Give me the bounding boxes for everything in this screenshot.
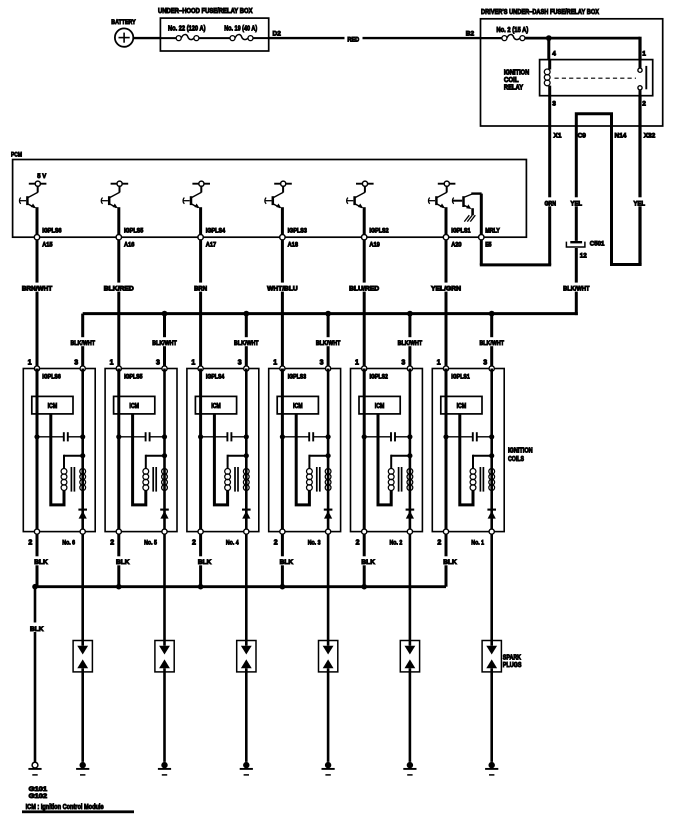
- svg-text:4: 4: [552, 50, 556, 57]
- coil No. 1 output pin No. 1: [471, 529, 494, 547]
- svg-text:No. 3: No. 3: [308, 540, 321, 547]
- svg-text:No. 6: No. 6: [62, 540, 75, 547]
- ICM box in coil No. 5: [114, 396, 155, 414]
- svg-text:BRN: BRN: [194, 285, 207, 292]
- svg-text:BATTERY: BATTERY: [111, 19, 136, 26]
- ICM box in coil No. 4: [195, 396, 236, 414]
- wire IGPLS3 emitter to pin A18: [281, 207, 284, 237]
- coil No. 2 pin 2: [356, 529, 367, 547]
- svg-text:BLK/WHT: BLK/WHT: [152, 340, 177, 347]
- ICM box in coil No. 1: [441, 396, 482, 414]
- transformer core coil No. 1: [480, 467, 483, 492]
- transistor driver Q3 (IGPLS4): [183, 181, 210, 208]
- wire coil No. 5 output to spark plug 5: [163, 534, 166, 646]
- coil No. 5 output pin No. 5: [144, 529, 167, 547]
- ignition coil unit No. 3 (IGPLS3) box: [269, 369, 341, 532]
- svg-text:YEL/GRN: YEL/GRN: [431, 285, 461, 292]
- wire WHT/BLU pin A18 to coil No.3 pin 1: [266, 240, 299, 369]
- coil No. 5 pin3 internal wire: [163, 369, 166, 532]
- wire MRLY collector to pin E5: [480, 194, 483, 238]
- spark plug 5: [155, 641, 174, 672]
- under-hood fuse/relay box: [158, 8, 269, 51]
- transformer secondary winding coil No. 5: [162, 469, 168, 491]
- transformer primary winding coil No. 3: [307, 469, 313, 491]
- battery B1: [111, 19, 136, 47]
- svg-text:BLK: BLK: [30, 626, 44, 633]
- ground spark plug 5: [158, 762, 171, 775]
- coil No. 4 pin1 internal wire: [199, 369, 202, 532]
- svg-text:IGPLS2: IGPLS2: [370, 374, 389, 381]
- svg-text:YEL: YEL: [571, 200, 583, 207]
- ICM box in coil No. 6: [32, 396, 73, 414]
- pin A20 (IGPLS1): [443, 228, 471, 249]
- spark plug 2: [400, 641, 419, 672]
- wire coil No. 4 output to spark plug 4: [245, 534, 248, 646]
- svg-text:IGPLS4: IGPLS4: [206, 228, 226, 235]
- transistor driver Q5 (IGPLS2): [347, 181, 374, 208]
- wire spark plug 2 to ground: [409, 668, 412, 762]
- coil No. 3 pin 3: [320, 360, 331, 371]
- wire BLK coil No. 2 pin 2 to ground bus: [361, 534, 377, 587]
- svg-text:COILS: COILS: [508, 456, 524, 463]
- diode in coil No. 3: [324, 510, 333, 519]
- pin A15 (IGPLS6): [34, 228, 62, 249]
- transformer primary winding coil No. 4: [225, 469, 231, 491]
- svg-text:YEL: YEL: [633, 200, 645, 207]
- svg-text:MRLY: MRLY: [485, 228, 500, 235]
- svg-text:E5: E5: [485, 242, 492, 249]
- svg-text:X1: X1: [554, 132, 562, 139]
- relay pin 1: [642, 50, 646, 57]
- relay dashed link: [555, 77, 637, 79]
- svg-text:SPARK: SPARK: [503, 654, 521, 661]
- svg-text:PCM: PCM: [11, 152, 22, 159]
- primary winding top tap coil No. 2: [391, 453, 412, 469]
- wire YEL/GRN pin A20 to coil No.1 pin 1: [430, 240, 462, 369]
- transistor driver Q4 (IGPLS3): [265, 181, 292, 208]
- pin A17 (IGPLS4): [198, 228, 226, 249]
- wire BLK coil No. 3 pin 2 to ground bus: [279, 534, 295, 587]
- wire coil No. 1 output to spark plug 1: [490, 534, 493, 646]
- svg-text:ICM : Ignition Control Module: ICM : Ignition Control Module: [26, 804, 104, 811]
- ground spark plug 1: [485, 762, 498, 775]
- wire coil No. 3 output to spark plug 3: [327, 534, 330, 646]
- diode in coil No. 5: [160, 510, 169, 519]
- svg-text:1: 1: [437, 360, 441, 367]
- diode in coil No. 6: [78, 510, 87, 519]
- corner BLK/WHT bus left end: [69, 314, 96, 369]
- wire RED from D2 to B2: [269, 34, 481, 44]
- coil No. 2 pin1 internal wire: [363, 369, 366, 532]
- transistor driver Q1 (IGPLS6): [19, 173, 46, 208]
- wire BLK coil No. 5 pin 2 to ground bus: [115, 534, 131, 587]
- wire BLK/WHT from C501 to coil bus: [563, 248, 591, 315]
- svg-text:A19: A19: [369, 242, 380, 249]
- ground spark plug 3: [322, 762, 335, 775]
- ground spark plug 6: [76, 762, 89, 775]
- svg-text:ICM: ICM: [48, 403, 58, 410]
- svg-text:2: 2: [28, 540, 32, 547]
- wire BRN pin A17 to coil No.4 pin 1: [193, 240, 208, 369]
- transistor driver Q6 (IGPLS1): [428, 181, 455, 208]
- svg-text:COIL: COIL: [504, 77, 519, 84]
- svg-text:IGPLS1: IGPLS1: [451, 228, 471, 235]
- diode in coil No. 1: [487, 510, 496, 519]
- junction BLK/WHT bus column 5: [397, 311, 424, 369]
- svg-text:3: 3: [552, 101, 556, 108]
- svg-text:3: 3: [320, 360, 324, 367]
- svg-text:2: 2: [274, 540, 278, 547]
- svg-text:1: 1: [110, 360, 114, 367]
- terminal B2: [466, 30, 475, 37]
- diode in coil No. 2: [406, 510, 415, 519]
- svg-text:ICM: ICM: [457, 403, 467, 410]
- svg-text:N14: N14: [615, 132, 627, 139]
- svg-text:1: 1: [642, 50, 646, 57]
- diode in coil No. 4: [242, 510, 251, 519]
- wire fuse to relay pin 1: [525, 37, 640, 60]
- pin A16 (IGPLS5): [116, 228, 144, 249]
- PCM box: [11, 152, 526, 238]
- primary winding top tap coil No. 1: [473, 453, 494, 469]
- ICM box in coil No. 2: [359, 396, 400, 414]
- transistor driver Q7 (MRLY): [452, 194, 481, 222]
- coil No. 2 pin 3: [401, 360, 412, 371]
- junction BLK/WHT bus column 4: [315, 311, 342, 369]
- wire IGPLS2 emitter to pin A19: [363, 207, 366, 237]
- svg-text:A16: A16: [124, 242, 135, 249]
- coil No. 6 pin3 internal wire: [81, 369, 84, 532]
- ignition coil unit No. 4 (IGPLS4) box: [187, 369, 259, 532]
- svg-text:No. 22 (120 A): No. 22 (120 A): [168, 26, 206, 33]
- svg-text:A20: A20: [451, 242, 462, 249]
- transformer core coil No. 5: [153, 467, 156, 492]
- ignition coil unit No. 2 (IGPLS2) box: [351, 369, 423, 532]
- svg-text:1: 1: [355, 360, 359, 367]
- svg-text:UNDER–HOOD FUSE/RELAY BOX: UNDER–HOOD FUSE/RELAY BOX: [158, 8, 253, 15]
- ICM to primary wire coil No. 3: [296, 414, 309, 505]
- svg-text:3: 3: [238, 360, 242, 367]
- transformer core coil No. 4: [235, 467, 238, 492]
- svg-text:No. 1: No. 1: [471, 540, 484, 547]
- svg-text:BRN/WHT: BRN/WHT: [22, 285, 52, 292]
- coil No. 1 pin3 internal wire: [490, 369, 493, 532]
- coil No. 1 pin 3: [483, 360, 494, 371]
- svg-text:RED: RED: [347, 36, 359, 43]
- svg-text:IGPLS5: IGPLS5: [124, 374, 143, 381]
- svg-text:C501: C501: [590, 241, 605, 248]
- ICM to primary wire coil No. 1: [460, 414, 473, 505]
- relay coil winding: [544, 60, 550, 96]
- svg-text:C9: C9: [578, 132, 587, 139]
- capacitor in coil No. 4: [198, 432, 249, 441]
- wire BLK/RED pin A16 to coil No.5 pin 1: [103, 240, 135, 369]
- coil No. 3 pin 1: [273, 360, 285, 371]
- wire N14 to X32 bottom link: [610, 263, 642, 266]
- wire spark plug 6 to ground: [81, 668, 84, 762]
- primary winding top tap coil No. 6: [64, 453, 85, 469]
- coil No. 1 pin1 internal wire: [445, 369, 448, 532]
- coil No. 4 output pin No. 4: [226, 529, 249, 547]
- svg-text:WHT/BLU: WHT/BLU: [267, 285, 298, 292]
- coil No. 3 output pin No. 3: [308, 529, 331, 547]
- wire BRN/WHT pin A15 to coil No.6 pin 1: [21, 240, 53, 369]
- coil No. 5 pin 2: [110, 529, 121, 547]
- ground G101 G102: [28, 762, 47, 800]
- capacitor in coil No. 6: [34, 432, 85, 441]
- transformer primary winding coil No. 6: [61, 469, 67, 491]
- ground spark plug 2: [403, 762, 416, 775]
- svg-text:2: 2: [642, 101, 646, 108]
- junction BLK/WHT bus column 6: [478, 311, 505, 369]
- wire IGPLS4 emitter to pin A17: [199, 207, 202, 237]
- jumper C9-N14 inside box: [576, 114, 611, 126]
- coil No. 1 pin 1: [437, 360, 449, 371]
- wire IGPLS6 emitter to pin A15: [36, 207, 39, 237]
- coil No. 5 pin 3: [156, 360, 167, 371]
- fuse No.19 (40 A): [224, 26, 269, 41]
- relay pin 3: [552, 101, 556, 108]
- wire spark plug 1 to ground: [490, 668, 493, 762]
- wire GRN relay pin3/X1 to PCM E5: [480, 96, 557, 265]
- coil No. 3 pin1 internal wire: [281, 369, 284, 532]
- ignition coil unit No. 6 (IGPLS6) box: [23, 369, 95, 532]
- transistor driver Q2 (IGPLS5): [101, 181, 128, 208]
- terminal X1: [554, 132, 562, 139]
- svg-text:IGPLS3: IGPLS3: [288, 228, 308, 235]
- svg-text:BLK: BLK: [116, 559, 130, 566]
- pin E5 (MRLY): [479, 228, 501, 249]
- svg-text:X32: X32: [644, 132, 656, 139]
- ground bus: [32, 584, 446, 590]
- transformer secondary winding coil No. 6: [80, 469, 86, 491]
- svg-text:ICM: ICM: [211, 403, 221, 410]
- svg-text:BLK/WHT: BLK/WHT: [563, 285, 589, 292]
- junction BLK/WHT bus column 3: [233, 311, 260, 369]
- svg-text:BLK/WHT: BLK/WHT: [316, 340, 341, 347]
- svg-text:B2: B2: [466, 30, 475, 37]
- svg-text:12: 12: [580, 252, 587, 259]
- pin A19 (IGPLS2): [362, 228, 390, 249]
- transformer core coil No. 2: [399, 467, 402, 492]
- terminal D2: [273, 30, 282, 37]
- transformer core coil No. 6: [71, 467, 74, 492]
- coil No. 3 pin3 internal wire: [327, 369, 330, 532]
- svg-text:BLK/RED: BLK/RED: [104, 285, 134, 292]
- svg-text:A18: A18: [288, 242, 299, 249]
- junction BLK/WHT bus column 2: [151, 311, 178, 369]
- relay pin 2: [642, 101, 646, 108]
- svg-text:2: 2: [437, 540, 441, 547]
- wire IGPLS1 emitter to pin A20: [445, 207, 448, 237]
- svg-text:5 V: 5 V: [37, 173, 47, 180]
- wire battery to under-hood box: [133, 37, 160, 39]
- svg-text:BLK/WHT: BLK/WHT: [398, 340, 423, 347]
- svg-text:RELAY: RELAY: [504, 85, 523, 92]
- svg-text:1: 1: [28, 360, 32, 367]
- svg-text:IGPLS6: IGPLS6: [42, 228, 62, 235]
- svg-text:G101: G101: [29, 786, 48, 793]
- svg-text:ICM: ICM: [375, 403, 385, 410]
- coil No. 3 pin 2: [274, 529, 285, 547]
- transformer secondary winding coil No. 3: [325, 469, 331, 491]
- coil No. 2 pin 1: [355, 360, 367, 371]
- svg-text:BLK: BLK: [198, 559, 212, 566]
- label ignition coils: [508, 448, 533, 463]
- svg-text:No. 4: No. 4: [226, 540, 239, 547]
- svg-text:No. 2: No. 2: [390, 540, 403, 547]
- svg-text:IGPLS1: IGPLS1: [451, 374, 470, 381]
- svg-text:BLK: BLK: [34, 559, 48, 566]
- capacitor in coil No. 1: [443, 432, 494, 441]
- wire spark plug 4 to ground: [245, 668, 248, 762]
- svg-text:GRN: GRN: [544, 200, 556, 207]
- relay pin 4: [552, 50, 556, 57]
- coil No. 6 pin 3: [74, 360, 85, 371]
- coil No. 4 pin 2: [192, 529, 203, 547]
- svg-text:IGPLS3: IGPLS3: [288, 374, 307, 381]
- svg-text:IGPLS2: IGPLS2: [369, 228, 389, 235]
- driver's under-dash fuse/relay box: [481, 9, 663, 126]
- wire spark plug 3 to ground: [327, 668, 330, 762]
- ICM to primary wire coil No. 2: [378, 414, 391, 505]
- spark plug 4: [237, 641, 256, 672]
- svg-text:IGNITION: IGNITION: [508, 448, 533, 455]
- spark plug 3: [319, 641, 338, 672]
- primary winding top tap coil No. 3: [309, 453, 330, 469]
- svg-text:BLK/WHT: BLK/WHT: [479, 340, 504, 347]
- svg-text:2: 2: [192, 540, 196, 547]
- svg-text:IGPLS6: IGPLS6: [42, 374, 61, 381]
- svg-text:1: 1: [191, 360, 195, 367]
- coil No. 4 pin3 internal wire: [245, 369, 248, 532]
- svg-text:IGPLS5: IGPLS5: [124, 228, 144, 235]
- svg-text:A17: A17: [206, 242, 217, 249]
- label spark plugs: [503, 654, 522, 669]
- transformer secondary winding coil No. 4: [243, 469, 249, 491]
- wire YEL relay pin2/X32 down: [633, 96, 647, 265]
- svg-text:3: 3: [483, 360, 487, 367]
- svg-text:PLUGS: PLUGS: [503, 662, 522, 669]
- transformer primary winding coil No. 2: [388, 469, 394, 491]
- ground spark plug 4: [240, 762, 253, 775]
- coil No. 6 pin1 internal wire: [36, 369, 39, 532]
- svg-text:BLK: BLK: [361, 559, 375, 566]
- terminal C9: [578, 132, 587, 139]
- wire coil No. 6 output to spark plug 6: [81, 534, 84, 646]
- capacitor in coil No. 5: [116, 432, 167, 441]
- wire BLK coil No. 1 pin 2 to ground bus: [443, 534, 459, 587]
- spark plug 1: [482, 641, 501, 672]
- ICM to primary wire coil No. 6: [51, 414, 64, 505]
- note ICM legend: [22, 804, 134, 813]
- svg-text:3: 3: [156, 360, 160, 367]
- wire BLU/RED pin A19 to coil No.2 pin 1: [348, 240, 380, 369]
- svg-text:1: 1: [273, 360, 277, 367]
- fuse No.2 (15 A): [481, 27, 529, 41]
- coil No. 5 pin 1: [110, 360, 122, 371]
- primary winding top tap coil No. 5: [146, 453, 167, 469]
- svg-text:A15: A15: [42, 242, 53, 249]
- svg-text:No. 2 (15 A): No. 2 (15 A): [496, 27, 528, 34]
- wire BLK ground bus to G101/G102: [28, 587, 49, 763]
- wire BLK coil No. 6 pin 2 to ground bus: [34, 534, 50, 587]
- svg-text:3: 3: [401, 360, 405, 367]
- coil No. 6 output pin No. 6: [62, 529, 85, 547]
- junction at relay pin 4 feed: [546, 35, 552, 59]
- coil No. 6 pin 1: [28, 360, 40, 371]
- svg-text:2: 2: [110, 540, 114, 547]
- svg-text:BLU/RED: BLU/RED: [349, 285, 379, 292]
- wire IGPLS5 emitter to pin A16: [117, 207, 120, 237]
- terminal N14: [615, 132, 627, 139]
- svg-text:DRIVER'S UNDER–DASH FUSE/RELAY: DRIVER'S UNDER–DASH FUSE/RELAY BOX: [481, 9, 599, 16]
- capacitor in coil No. 3: [280, 432, 331, 441]
- coil No. 2 output pin No. 2: [390, 529, 413, 547]
- primary winding top tap coil No. 4: [228, 453, 249, 469]
- svg-text:BLK: BLK: [443, 559, 457, 566]
- svg-text:IGNITION: IGNITION: [504, 69, 529, 76]
- svg-text:No. 19 (40 A): No. 19 (40 A): [224, 26, 257, 33]
- coil No. 6 pin 2: [28, 529, 39, 547]
- svg-text:ICM: ICM: [129, 403, 139, 410]
- svg-text:BLK/WHT: BLK/WHT: [234, 340, 259, 347]
- transformer primary winding coil No. 5: [143, 469, 149, 491]
- spark plug 6: [73, 641, 92, 672]
- terminal X32: [644, 132, 656, 139]
- coil No. 4 pin 3: [238, 360, 249, 371]
- coil No. 1 pin 2: [437, 529, 448, 547]
- wire N14 jumper leg: [610, 126, 613, 265]
- coil No. 4 pin 1: [191, 360, 203, 371]
- svg-text:BLK/WHT: BLK/WHT: [70, 340, 95, 347]
- svg-text:No. 5: No. 5: [144, 540, 157, 547]
- svg-text:IGPLS4: IGPLS4: [206, 374, 225, 381]
- coil No. 2 pin3 internal wire: [409, 369, 412, 532]
- transformer primary winding coil No. 1: [470, 469, 476, 491]
- transformer secondary winding coil No. 1: [489, 469, 495, 491]
- wire coil No. 2 output to spark plug 2: [409, 534, 412, 646]
- wire BLK coil No. 4 pin 2 to ground bus: [197, 534, 213, 587]
- coil No. 5 pin1 internal wire: [117, 369, 120, 532]
- svg-text:3: 3: [74, 360, 78, 367]
- BLK/WHT bus to ignition coils: [83, 312, 578, 315]
- transformer core coil No. 3: [317, 467, 320, 492]
- relay contact: [638, 60, 646, 96]
- ignition coil unit No. 1 (IGPLS1) box: [432, 369, 504, 532]
- connector C501 pin 12: [566, 241, 605, 260]
- ICM box in coil No. 3: [277, 396, 318, 414]
- svg-text:BLK: BLK: [280, 559, 294, 566]
- wire YEL from C9 to C501: [570, 126, 584, 241]
- pin A18 (IGPLS3): [280, 228, 308, 249]
- fuse No.22 (120 A): [160, 26, 230, 41]
- svg-text:2: 2: [356, 540, 360, 547]
- svg-text:G102: G102: [29, 793, 48, 800]
- ICM to primary wire coil No. 5: [133, 414, 146, 505]
- wire spark plug 5 to ground: [163, 668, 166, 762]
- ignition coil unit No. 5 (IGPLS5) box: [105, 369, 177, 532]
- svg-text:D2: D2: [273, 30, 282, 37]
- ICM to primary wire coil No. 4: [214, 414, 227, 505]
- transformer secondary winding coil No. 2: [407, 469, 413, 491]
- ignition coil relay K: [504, 60, 653, 96]
- capacitor in coil No. 2: [362, 432, 413, 441]
- svg-text:ICM: ICM: [293, 403, 303, 410]
